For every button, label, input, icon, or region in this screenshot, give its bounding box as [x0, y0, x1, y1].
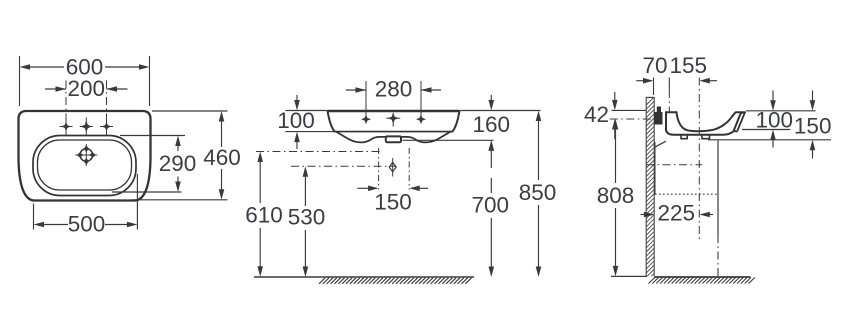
- svg-text:150: 150: [374, 189, 412, 214]
- svg-text:500: 500: [68, 212, 106, 237]
- svg-text:225: 225: [658, 201, 696, 226]
- svg-text:460: 460: [203, 145, 241, 170]
- svg-text:155: 155: [670, 53, 708, 78]
- svg-text:42: 42: [584, 102, 609, 127]
- svg-text:610: 610: [245, 203, 283, 228]
- svg-text:530: 530: [288, 205, 326, 230]
- svg-text:280: 280: [375, 77, 413, 102]
- svg-text:150: 150: [794, 114, 832, 139]
- svg-text:700: 700: [472, 193, 510, 218]
- svg-text:850: 850: [519, 180, 557, 205]
- svg-text:200: 200: [68, 76, 106, 101]
- svg-text:808: 808: [597, 183, 635, 208]
- svg-text:290: 290: [159, 151, 197, 176]
- svg-text:160: 160: [473, 112, 511, 137]
- svg-text:70: 70: [642, 53, 667, 78]
- svg-text:100: 100: [277, 108, 315, 133]
- svg-text:100: 100: [756, 107, 794, 132]
